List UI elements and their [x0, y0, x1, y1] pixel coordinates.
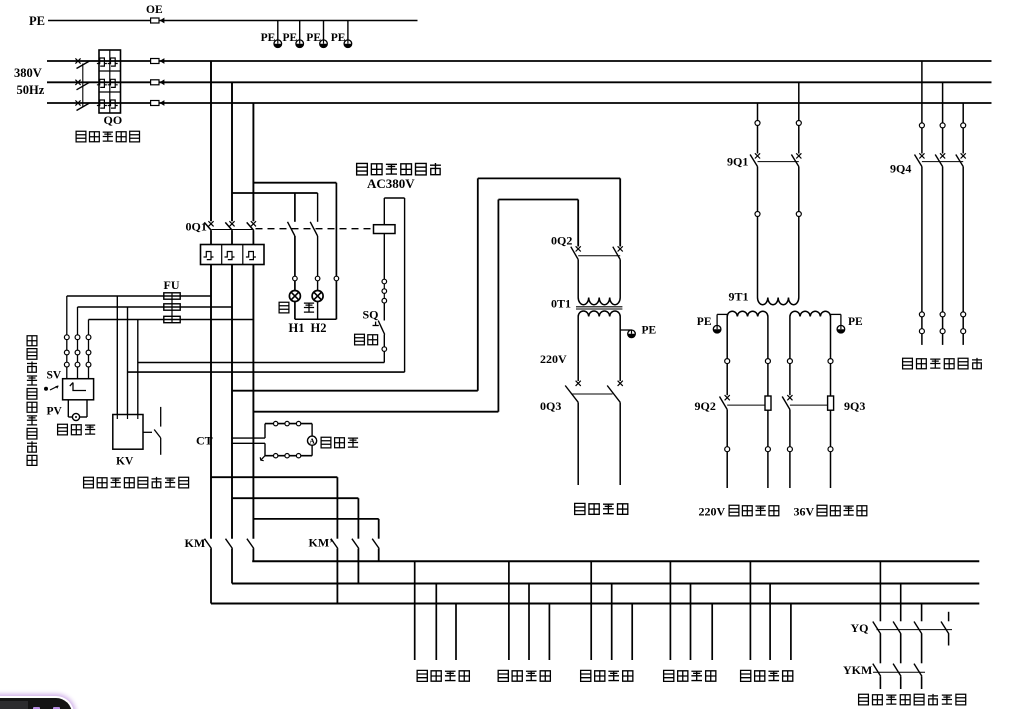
ground PE3 [320, 40, 328, 48]
feeder qisheng-fuji (aux hoist) [509, 561, 550, 660]
wire 0T1 sec left to 0Q3 [577, 317, 579, 382]
wire KM' feed 1 [211, 477, 337, 539]
wire lamp feed from L3 drop [253, 182, 336, 184]
wire tap1 FU to L1 drop [67, 295, 211, 297]
label dianliubiao (ammeter) [321, 437, 358, 448]
connector X1 (3 terminals) [382, 279, 387, 303]
switch YQ auxiliary contact [941, 612, 949, 646]
svg-text:0Q2: 0Q2 [551, 234, 572, 248]
ground PE on 9T1 secondary 2 [831, 314, 841, 325]
label qisheng-zhuji (main hoist) [417, 670, 469, 681]
svg-text:PE: PE [848, 316, 863, 328]
coil Y1 shunt trip [374, 225, 396, 234]
svg-text:SV: SV [47, 370, 62, 382]
wire 0Q1 pole1 down to KM [210, 265, 212, 539]
fuse FU (3 elements) [164, 293, 180, 323]
wire drop L3 to 0Q1 [252, 103, 254, 221]
selector switch SV terminals [64, 296, 91, 379]
svg-text:380V: 380V [14, 66, 42, 80]
svg-text:PE: PE [697, 316, 712, 328]
wire phase L2 [47, 81, 992, 83]
wire KM' feed 3 [253, 519, 378, 539]
breaker 9Q2 branch right lead with thermal element [765, 317, 771, 489]
svg-text:FU: FU [164, 278, 180, 292]
svg-text:A: A [309, 437, 315, 446]
disconnect F1 on L1 [151, 58, 165, 64]
lamp branch H2 [310, 193, 323, 319]
relay KV (phase sequence) [113, 415, 143, 450]
label jiting (emergency stop) [355, 334, 378, 345]
emergency stop switch SQ [373, 303, 387, 363]
wire coil top up [383, 198, 385, 225]
transformer 9T1 [727, 298, 830, 317]
svg-text:9Q3: 9Q3 [844, 399, 865, 413]
label qisheng-fuji (aux hoist) [498, 670, 550, 681]
label jie-youbeng-huo-zhuyou-dianji (oil pump motor) [859, 694, 966, 705]
contactor YKM [873, 664, 925, 689]
bus B2 [232, 583, 979, 585]
disconnect F3 on L3 [151, 100, 165, 106]
wire PE drop 2 [299, 21, 301, 41]
label huizhuan-dianlu (slewing) [664, 670, 716, 681]
switch YQ [873, 561, 952, 663]
disconnect F2 on L2 [151, 79, 165, 85]
wire PE drop 3 [323, 21, 325, 41]
bus B1 [252, 560, 979, 562]
svg-text:220V: 220V [540, 352, 567, 366]
decorative overlay box bottom-left [0, 698, 72, 709]
svg-text:9Q2: 9Q2 [695, 399, 716, 413]
svg-text:36V: 36V [794, 505, 815, 519]
wire lamp bottom rail [295, 318, 337, 320]
label sanxiang-chazuo-dianyuan (3-phase socket power) [903, 358, 982, 369]
wire 9Q1 feed from L2 [796, 82, 801, 153]
wire PE drop 4 [347, 21, 349, 41]
ground PE4 [344, 40, 352, 48]
svg-text:PE: PE [29, 14, 45, 28]
wire tap3 FU to L3 drop [89, 319, 254, 321]
label dianyabiao (voltmeter) [58, 424, 96, 435]
bus B3 [211, 603, 979, 605]
wire SQ return to phase tap [138, 362, 384, 364]
svg-text:PV: PV [47, 406, 63, 418]
ground PE2 [296, 40, 304, 48]
svg-text:9T1: 9T1 [729, 290, 749, 304]
contactor KM' [331, 539, 379, 604]
wire 0Q1 pole3 down to KM [252, 265, 254, 539]
label bianfu-dianlu (luffing) [581, 670, 633, 681]
breaker QO [97, 50, 121, 113]
breaker 0Q2 [571, 246, 623, 297]
disconnect switch QS incoming [75, 58, 89, 110]
wire KM' feed 2 [232, 498, 358, 539]
svg-text:PE: PE [306, 32, 321, 44]
rotary knob dot and arrow [44, 386, 59, 391]
label kongzhi-dianyuan (control power) [575, 503, 628, 514]
wire phase L3 [47, 102, 992, 104]
wire 9Q1 to 9T1 primary [755, 167, 801, 298]
svg-text:SQ: SQ [363, 308, 379, 322]
wire KV tap3 [137, 320, 139, 415]
wire coil side down [404, 198, 406, 372]
relay KV output contact [143, 407, 161, 455]
wire coil bottom to connector [383, 234, 385, 280]
wire trip linkage (dashed) [256, 228, 374, 230]
svg-text:220V: 220V [699, 505, 726, 519]
label duogongneng-xiangxu-jidianqi (phase sequence relay) [84, 477, 189, 488]
svg-text:PE: PE [331, 32, 346, 44]
breaker 0Q3 [565, 381, 623, 485]
selector switch SV box [63, 379, 94, 400]
contactor KM [205, 539, 254, 604]
wire drop L2 to 0Q1 [231, 82, 233, 221]
label xingzou-dianlu (travel) [741, 670, 793, 681]
svg-text:KM: KM [185, 536, 206, 550]
label fenli-tuokou-xianquan (shunt trip coil) [357, 163, 441, 175]
svg-text:0T1: 0T1 [551, 297, 571, 311]
ammeter PA [308, 436, 317, 446]
svg-text:QO: QO [104, 113, 123, 127]
lamp return branch [334, 183, 339, 320]
svg-text:H2: H2 [311, 321, 327, 335]
wire coil return to phase tap [128, 371, 405, 373]
svg-text:50Hz: 50Hz [17, 83, 45, 97]
svg-text:KV: KV [116, 456, 134, 468]
wire KV tap2 [127, 307, 129, 415]
svg-text:OE: OE [146, 4, 163, 16]
wire phase L1 [47, 60, 992, 62]
feeder bianfu-dianlu (luffing) [591, 561, 632, 660]
ammeter loop with terminals [260, 421, 312, 460]
svg-text:KM’: KM’ [309, 536, 334, 550]
svg-text:CT: CT [196, 434, 213, 448]
wire tap2 FU to L2 drop [78, 306, 233, 308]
wire 9Q1 feed from L3 [755, 103, 760, 154]
wire PE drop 1 [277, 21, 279, 41]
wire PE bus [48, 20, 418, 22]
breaker 9Q4 [915, 61, 966, 345]
breaker 9Q3 branch right lead with thermal element [828, 317, 834, 489]
svg-text:0Q1: 0Q1 [186, 220, 207, 234]
svg-text:9Q4: 9Q4 [890, 162, 911, 176]
label hong (red) [304, 303, 314, 312]
ground PE on 0T1 secondary [620, 329, 631, 331]
wire KV tap1 [116, 296, 118, 415]
lamp branch H1 [288, 193, 301, 319]
svg-text:9Q1: 9Q1 [727, 155, 748, 169]
svg-text:AC380V: AC380V [367, 176, 415, 191]
ground PE1 [274, 40, 282, 48]
label xiabu-zongkaiguan (lower main switch) [76, 131, 139, 142]
svg-text:0Q3: 0Q3 [540, 399, 561, 413]
wire 0Q1 pole2 down to KM [231, 265, 233, 539]
label sanxiang-dianya-celiang-zhuanhuan-kaiguan (vertical) [27, 336, 37, 466]
label lv (green) [279, 302, 289, 313]
svg-text:H1: H1 [289, 321, 305, 335]
wire 0Q2 feed A from L2 drop [232, 178, 620, 390]
transformer 0T1 [576, 298, 622, 317]
breaker 9Q1 [750, 153, 801, 166]
feeder huizhuan-dianlu (slewing) [670, 561, 712, 660]
wire 0Q2 feed B from L3 drop [253, 200, 578, 412]
ground PE on 9T1 secondary 1 [717, 314, 727, 325]
wire coil top over [384, 197, 404, 199]
disconnect OE on PE bus [151, 18, 165, 24]
feeder xingzou-dianlu (travel) [750, 561, 791, 660]
breaker 9Q2 branch left lead [720, 317, 766, 489]
wire lamp feed from L2 drop [232, 192, 318, 194]
breaker 0Q1 [201, 221, 265, 264]
svg-text:PE: PE [282, 32, 297, 44]
wire 0T1 sec right to 0Q3 [619, 317, 621, 382]
current transformer CT secondary leads [231, 438, 265, 443]
svg-text:PE: PE [642, 325, 657, 337]
svg-text:YQ: YQ [851, 621, 869, 635]
svg-text:PE: PE [261, 32, 276, 44]
voltmeter PV [68, 400, 87, 421]
svg-text:YKM: YKM [843, 663, 872, 677]
feeder qisheng-zhuji (main hoist) [415, 561, 456, 660]
breaker 9Q3 branch left lead [782, 317, 828, 489]
wire drop L1 to 0Q1 [210, 61, 212, 221]
